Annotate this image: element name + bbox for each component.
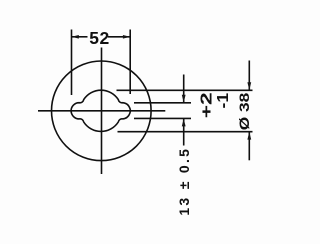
dia38 dimension line top segment [248,61,250,91]
svg-text:13 ± 0.5: 13 ± 0.5 [176,147,192,216]
dia38 top extension line [117,89,253,91]
outer circle [52,61,152,161]
dim 13 top arrowhead [182,95,186,103]
dia38 dimension line bottom segment [248,132,250,161]
svg-text:-1: -1 [215,93,232,109]
dim 13 top extension line [134,102,191,104]
vertical center line [101,48,103,175]
horizontal center line [38,110,165,112]
dim 13 bottom extension line [134,117,191,119]
svg-text:+2: +2 [199,92,216,118]
inner keyway shape [71,90,130,131]
dim 52 left extension line [71,30,73,96]
dim 52 right arrowhead [123,35,130,39]
dim 13 dimension line top segment [183,75,185,103]
dim 52 left arrowhead [72,35,79,39]
dim 52 right extension line [129,30,131,95]
dia38 top arrowhead [247,82,251,90]
dia38 bottom arrowhead [247,132,251,140]
dim 52 dimension line right segment [108,36,130,38]
dia38 bottom extension line [118,131,253,133]
dim 13 bottom arrowhead [182,118,186,126]
dim 13 dimension line bottom segment [183,118,185,145]
dim 52 dimension line left segment [72,36,88,38]
svg-text:52: 52 [89,28,109,48]
svg-text:Ø 38: Ø 38 [236,92,252,130]
